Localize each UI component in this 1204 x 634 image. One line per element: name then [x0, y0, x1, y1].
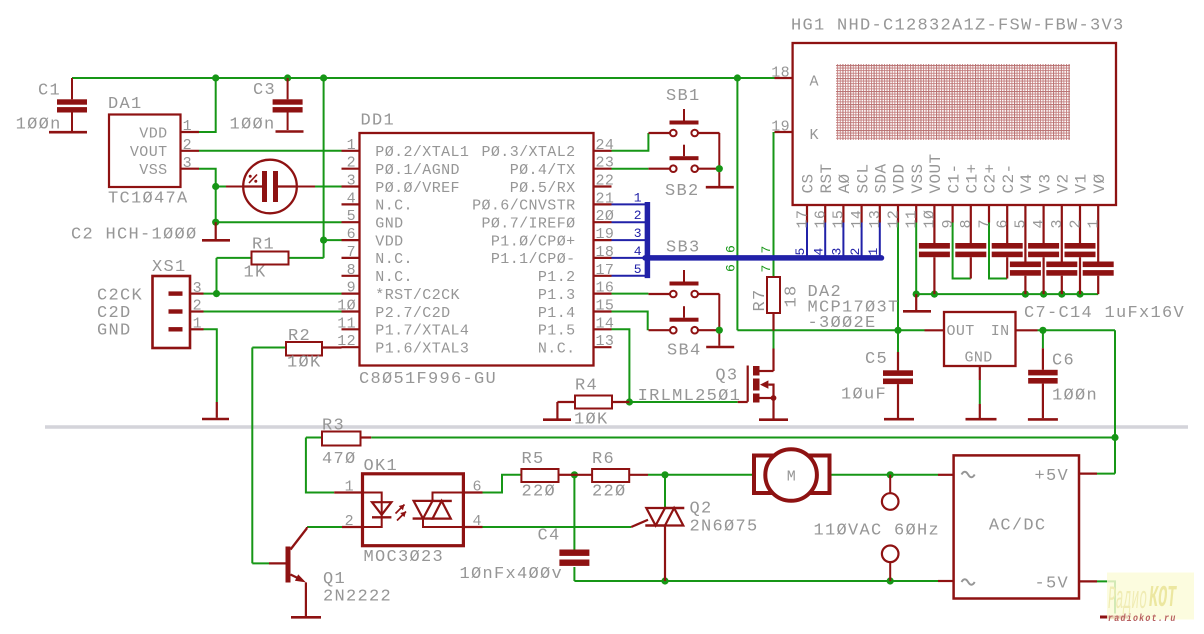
svg-text:HG1 NHD-C12832A1Z-FSW-FBW-3V3: HG1 NHD-C12832A1Z-FSW-FBW-3V3: [791, 17, 1125, 36]
svg-text:C1: C1: [38, 82, 61, 101]
svg-text:PØ.7/IREFØ: PØ.7/IREFØ: [482, 216, 576, 233]
svg-text:2: 2: [183, 137, 192, 154]
svg-text:MOC3Ø23: MOC3Ø23: [364, 548, 445, 567]
svg-text:P1.3: P1.3: [538, 287, 576, 304]
svg-text:18: 18: [771, 65, 790, 82]
svg-text:V3: V3: [1036, 173, 1054, 193]
svg-text:17: 17: [794, 210, 811, 229]
svg-text:9: 9: [347, 280, 356, 297]
svg-text:5: 5: [347, 208, 356, 225]
svg-text:2: 2: [634, 208, 642, 223]
svg-text:C1-: C1-: [945, 163, 963, 193]
svg-text:P1.4: P1.4: [538, 305, 576, 322]
svg-text:C2CK: C2CK: [97, 287, 143, 306]
svg-text:11: 11: [904, 210, 921, 229]
svg-text:16: 16: [813, 210, 830, 229]
svg-text:6: 6: [995, 219, 1012, 228]
svg-text:C2-: C2-: [1000, 163, 1018, 193]
svg-text:6: 6: [473, 479, 482, 496]
svg-text:AØ: AØ: [836, 173, 854, 193]
svg-text:C2+: C2+: [982, 163, 1000, 193]
svg-text:21: 21: [596, 190, 615, 207]
svg-text:K: K: [810, 127, 819, 144]
svg-text:2N6Ø75: 2N6Ø75: [690, 518, 759, 537]
svg-text:SB4: SB4: [667, 342, 702, 361]
svg-text:1: 1: [183, 118, 192, 135]
svg-text:VOUT: VOUT: [130, 144, 168, 161]
svg-text:3: 3: [193, 280, 202, 297]
svg-text:TC1Ø47A: TC1Ø47A: [108, 190, 189, 209]
svg-text:C6: C6: [1052, 352, 1075, 371]
svg-text:R4: R4: [575, 377, 598, 396]
svg-text:GND: GND: [375, 216, 403, 233]
svg-text:4: 4: [347, 190, 356, 207]
svg-text:1ØuF: 1ØuF: [841, 386, 887, 405]
svg-text:1ØØn: 1ØØn: [16, 116, 62, 135]
svg-text:3: 3: [830, 248, 845, 256]
svg-text:C3: C3: [253, 81, 276, 100]
svg-text:Q2: Q2: [690, 500, 713, 519]
svg-text:18: 18: [596, 244, 615, 261]
svg-text:1: 1: [345, 479, 354, 496]
svg-text:16: 16: [596, 280, 615, 297]
svg-text:GND: GND: [965, 350, 993, 367]
svg-text:PØ.6/CNVSTR: PØ.6/CNVSTR: [472, 198, 575, 215]
svg-text:-3ØØ2E: -3ØØ2E: [808, 314, 877, 333]
svg-text:5: 5: [1013, 219, 1030, 228]
svg-text:V4: V4: [1018, 173, 1036, 193]
svg-text:P2.7/C2D: P2.7/C2D: [375, 305, 450, 322]
svg-text:8: 8: [347, 262, 356, 279]
svg-text:15: 15: [831, 210, 848, 229]
svg-text:15: 15: [596, 298, 615, 315]
svg-text:PØ.2/XTAL1: PØ.2/XTAL1: [375, 144, 469, 161]
svg-text:2N2222: 2N2222: [323, 588, 392, 607]
svg-text:R6: R6: [592, 450, 615, 469]
svg-text:2: 2: [345, 513, 354, 530]
svg-text:R7: R7: [751, 288, 770, 311]
svg-text:SB1: SB1: [666, 87, 701, 106]
svg-text:C1+: C1+: [964, 163, 982, 193]
svg-text:8: 8: [958, 219, 975, 228]
svg-text:N.C.: N.C.: [538, 341, 576, 358]
svg-text:1: 1: [193, 316, 202, 333]
svg-text:1: 1: [866, 248, 881, 256]
svg-text:3: 3: [347, 173, 356, 190]
svg-text:4: 4: [634, 244, 642, 259]
svg-text:11: 11: [337, 315, 356, 332]
svg-text:18: 18: [783, 284, 802, 307]
svg-text:-5V: -5V: [1035, 575, 1070, 594]
svg-text:RST: RST: [818, 163, 836, 193]
svg-text:3: 3: [1049, 219, 1066, 228]
svg-text:PØ.3/XTAL2: PØ.3/XTAL2: [482, 144, 576, 161]
svg-text:7: 7: [759, 246, 774, 254]
svg-text:GND: GND: [97, 321, 132, 340]
svg-text:13: 13: [596, 333, 615, 350]
svg-text:КОТ: КОТ: [1149, 582, 1177, 616]
svg-text:P1.5: P1.5: [538, 323, 576, 340]
svg-text:4: 4: [473, 513, 482, 530]
svg-text:VOUT: VOUT: [927, 153, 945, 193]
svg-text:AC/DC: AC/DC: [989, 517, 1047, 536]
svg-text:22Ø: 22Ø: [592, 483, 627, 502]
svg-text:OUT: OUT: [947, 323, 975, 340]
svg-text:CS: CS: [800, 173, 818, 193]
svg-text:14: 14: [849, 210, 866, 229]
svg-text:2Ø: 2Ø: [596, 208, 615, 225]
svg-text:VSS: VSS: [139, 162, 167, 179]
svg-text:C5: C5: [865, 350, 888, 369]
svg-text:1: 1: [1086, 219, 1103, 228]
svg-text:19: 19: [771, 119, 790, 136]
svg-text:*RST/C2CK: *RST/C2CK: [375, 287, 460, 304]
svg-text:19: 19: [596, 226, 615, 243]
svg-text:C7-C14 1uFx16V: C7-C14 1uFx16V: [1024, 304, 1185, 323]
svg-text:R5: R5: [522, 450, 545, 469]
svg-text:12: 12: [337, 333, 356, 350]
svg-text:7: 7: [759, 265, 774, 273]
svg-text:3: 3: [183, 155, 192, 172]
svg-text:1K: 1K: [244, 264, 267, 283]
svg-text:22: 22: [596, 173, 615, 190]
svg-text:2: 2: [193, 298, 202, 315]
svg-text:PØ.4/TX: PØ.4/TX: [510, 162, 576, 179]
svg-text:24: 24: [596, 137, 615, 154]
svg-text:radiokot.ru: radiokot.ru: [1108, 612, 1177, 624]
svg-text:14: 14: [596, 315, 615, 332]
svg-text:N.C.: N.C.: [375, 269, 413, 286]
svg-text:6: 6: [347, 226, 356, 243]
svg-text:R2: R2: [288, 327, 311, 346]
svg-text:SCL: SCL: [854, 163, 872, 193]
svg-text:P1.7/XTAL4: P1.7/XTAL4: [375, 323, 469, 340]
svg-text:VDD: VDD: [891, 163, 909, 193]
svg-text:C8Ø51F996-GU: C8Ø51F996-GU: [359, 370, 497, 389]
svg-text:4: 4: [811, 248, 826, 256]
svg-text:VØ: VØ: [1091, 173, 1109, 193]
svg-text:V2: V2: [1055, 173, 1073, 193]
svg-text:P1.Ø/CPØ+: P1.Ø/CPØ+: [491, 233, 576, 250]
svg-text:DD1: DD1: [361, 112, 396, 131]
svg-text:1ØnFx4ØØv: 1ØnFx4ØØv: [460, 565, 564, 584]
svg-text:OK1: OK1: [364, 457, 399, 476]
svg-text:V1: V1: [1073, 173, 1091, 193]
svg-text:P1.1/CPØ-: P1.1/CPØ-: [491, 251, 576, 268]
svg-text:A: A: [810, 73, 819, 90]
svg-text:N.C.: N.C.: [375, 198, 413, 215]
svg-text:R1: R1: [252, 236, 275, 255]
svg-text:7: 7: [976, 219, 993, 228]
svg-text:DA1: DA1: [108, 95, 143, 114]
svg-text:6: 6: [724, 264, 739, 272]
svg-text:M: M: [787, 468, 796, 485]
svg-text:XS1: XS1: [152, 258, 187, 277]
svg-text:C2 HCH-1ØØØ: C2 HCH-1ØØØ: [71, 226, 198, 245]
svg-text:C4: C4: [538, 527, 561, 546]
svg-text:9: 9: [940, 219, 957, 228]
svg-text:PØ.Ø/VREF: PØ.Ø/VREF: [375, 180, 460, 197]
svg-text:IRLML25Ø1: IRLML25Ø1: [638, 387, 742, 406]
svg-text:C2D: C2D: [97, 304, 132, 323]
svg-text:VSS: VSS: [909, 163, 927, 193]
svg-text:SDA: SDA: [873, 163, 891, 193]
svg-text:+5V: +5V: [1035, 467, 1070, 486]
svg-text:1: 1: [634, 190, 642, 205]
svg-text:VDD: VDD: [139, 125, 167, 142]
svg-text:5: 5: [634, 262, 642, 277]
svg-text:PØ.1/AGND: PØ.1/AGND: [375, 162, 460, 179]
svg-text:17: 17: [596, 262, 615, 279]
svg-text:4: 4: [1031, 219, 1048, 228]
svg-text:11ØVAC 6ØHz: 11ØVAC 6ØHz: [814, 522, 941, 541]
svg-text:PØ.5/RX: PØ.5/RX: [510, 180, 576, 197]
svg-text:1: 1: [347, 137, 356, 154]
svg-text:6: 6: [724, 245, 739, 253]
svg-text:13: 13: [867, 210, 884, 229]
svg-text:1ØK: 1ØK: [287, 354, 322, 373]
svg-text:1ØK: 1ØK: [574, 411, 609, 430]
svg-text:1Ø: 1Ø: [922, 210, 939, 229]
svg-text:N.C.: N.C.: [375, 251, 413, 268]
svg-text:Q3: Q3: [715, 367, 738, 386]
svg-text:7: 7: [347, 244, 356, 261]
svg-text:2: 2: [1067, 219, 1084, 228]
svg-text:P1.2: P1.2: [538, 269, 576, 286]
svg-text:SB2: SB2: [665, 182, 700, 201]
svg-text:3: 3: [634, 226, 642, 241]
svg-text:1ØØn: 1ØØn: [230, 116, 276, 135]
svg-text:Q1: Q1: [323, 570, 346, 589]
svg-text:1ØØn: 1ØØn: [1052, 387, 1098, 406]
svg-text:SB3: SB3: [666, 239, 701, 258]
svg-text:IN: IN: [991, 323, 1010, 340]
svg-text:P1.6/XTAL3: P1.6/XTAL3: [375, 341, 469, 358]
svg-text:12: 12: [885, 210, 902, 229]
svg-text:1Ø: 1Ø: [337, 298, 356, 315]
svg-text:2: 2: [848, 248, 863, 256]
svg-text:22Ø: 22Ø: [522, 483, 557, 502]
svg-text:VDD: VDD: [375, 233, 403, 250]
svg-text:23: 23: [596, 155, 615, 172]
svg-text:47Ø: 47Ø: [322, 450, 357, 469]
svg-text:R3: R3: [322, 417, 345, 436]
svg-text:2: 2: [347, 155, 356, 172]
svg-text:5: 5: [793, 248, 808, 256]
